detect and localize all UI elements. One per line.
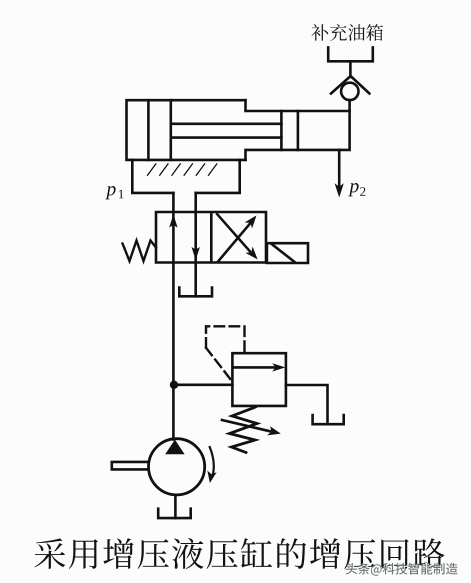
- mounting block under cylinder: [132, 160, 239, 193]
- tank T3 relief drain: [313, 415, 344, 424]
- piston big: [148, 100, 170, 160]
- relief valve spring: [230, 407, 258, 453]
- wire: neck right: [194, 193, 197, 263]
- tank T4 pump suction: [158, 509, 191, 518]
- relief valve adjust arrow: [222, 420, 281, 435]
- pump P1 circle: [149, 439, 205, 495]
- relief valve internal arrow: [234, 363, 286, 371]
- valve right position crossed arrows: [217, 214, 257, 261]
- label: supplementary oil tank text 补充油箱: [311, 24, 383, 41]
- wire: neck left (block to valve / main line): [172, 193, 175, 263]
- caption text 采用增压液压缸的增压回路: [35, 538, 445, 569]
- pump rotation arrow: [207, 447, 216, 483]
- valve left position arrows: [169, 215, 200, 261]
- watermark 头条@科技智能制造: [346, 563, 459, 577]
- wire: tank to check valve: [349, 61, 352, 77]
- wire: pump suction: [174, 495, 177, 518]
- label p2: [348, 183, 365, 196]
- p2 outlet line with arrow: [335, 150, 344, 198]
- wire: valve B to tank: [194, 263, 197, 297]
- wire: relief outlet to tank: [286, 385, 328, 424]
- tank T1 (supplementary oil tank symbol): [328, 47, 373, 61]
- intensifier cylinder small barrel: [246, 100, 350, 160]
- solenoid of valve: [267, 243, 308, 263]
- spring of valve: [123, 241, 157, 262]
- check valve V1: [331, 76, 369, 100]
- directional valve D1 body: [156, 212, 266, 263]
- pilot dashed line: [206, 326, 245, 380]
- hatch marks: [148, 164, 217, 175]
- wire: main pressure line valve to pump: [172, 263, 175, 440]
- tank T2 under valve: [179, 288, 212, 297]
- relief valve Y1 body: [232, 353, 286, 406]
- intensifier cylinder big barrel: [127, 100, 246, 160]
- piston rod: [171, 124, 282, 138]
- label p1: [105, 186, 123, 199]
- piston small: [281, 111, 298, 150]
- node junction dot: [170, 381, 178, 389]
- wire: junction to relief valve inlet: [174, 383, 232, 386]
- pump triangle: [165, 440, 184, 455]
- wire: check valve to cylinder top: [348, 100, 351, 111]
- pump shaft: [112, 462, 149, 470]
